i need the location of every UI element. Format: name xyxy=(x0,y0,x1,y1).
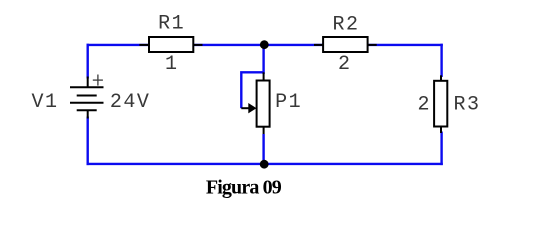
svg-text:R2: R2 xyxy=(332,13,359,36)
label 2 (R2 value) xyxy=(338,53,352,76)
label R2 xyxy=(332,13,359,36)
wire left vertical upper (top wire to battery +) xyxy=(86,44,88,79)
wire wiper branch (P1 wiper to top terminal) xyxy=(241,72,263,108)
label 2 (R3 value) xyxy=(417,94,431,117)
svg-text:2: 2 xyxy=(338,53,352,76)
node A (top junction dot) xyxy=(260,40,269,49)
battery V1 24V xyxy=(70,75,104,119)
label R3 xyxy=(453,94,480,117)
resistor R1 xyxy=(139,37,202,52)
svg-text:24V: 24V xyxy=(110,91,151,114)
svg-text:R1: R1 xyxy=(158,13,185,36)
label V1 xyxy=(31,91,58,114)
wire left vertical lower (battery - to bottom wire) xyxy=(86,117,88,166)
wire middle vertical upper (node A to P1 top) xyxy=(262,45,264,74)
wire right vertical upper (top wire to R3) xyxy=(440,44,442,77)
potentiometer P1 xyxy=(241,72,269,134)
node B (bottom junction dot) xyxy=(260,160,269,169)
svg-text:P1: P1 xyxy=(275,91,302,114)
resistor R3 xyxy=(434,75,447,133)
label 24V xyxy=(110,91,151,114)
caption Figura 09 xyxy=(206,177,282,199)
svg-text:1: 1 xyxy=(165,53,179,76)
wire bottom horizontal net xyxy=(87,163,443,165)
svg-text:V1: V1 xyxy=(31,91,58,114)
label 1 (R1 value) xyxy=(165,53,179,76)
wire right vertical lower (R3 to bottom wire) xyxy=(440,132,442,166)
svg-text:R3: R3 xyxy=(453,94,480,117)
svg-text:Figura 09: Figura 09 xyxy=(206,177,282,199)
wire middle vertical lower (P1 bottom to node B) xyxy=(262,134,264,164)
resistor R2 xyxy=(314,37,377,52)
label P1 xyxy=(275,91,302,114)
label R1 xyxy=(158,13,185,36)
wire top horizontal net xyxy=(87,44,443,46)
svg-text:2: 2 xyxy=(417,94,431,117)
